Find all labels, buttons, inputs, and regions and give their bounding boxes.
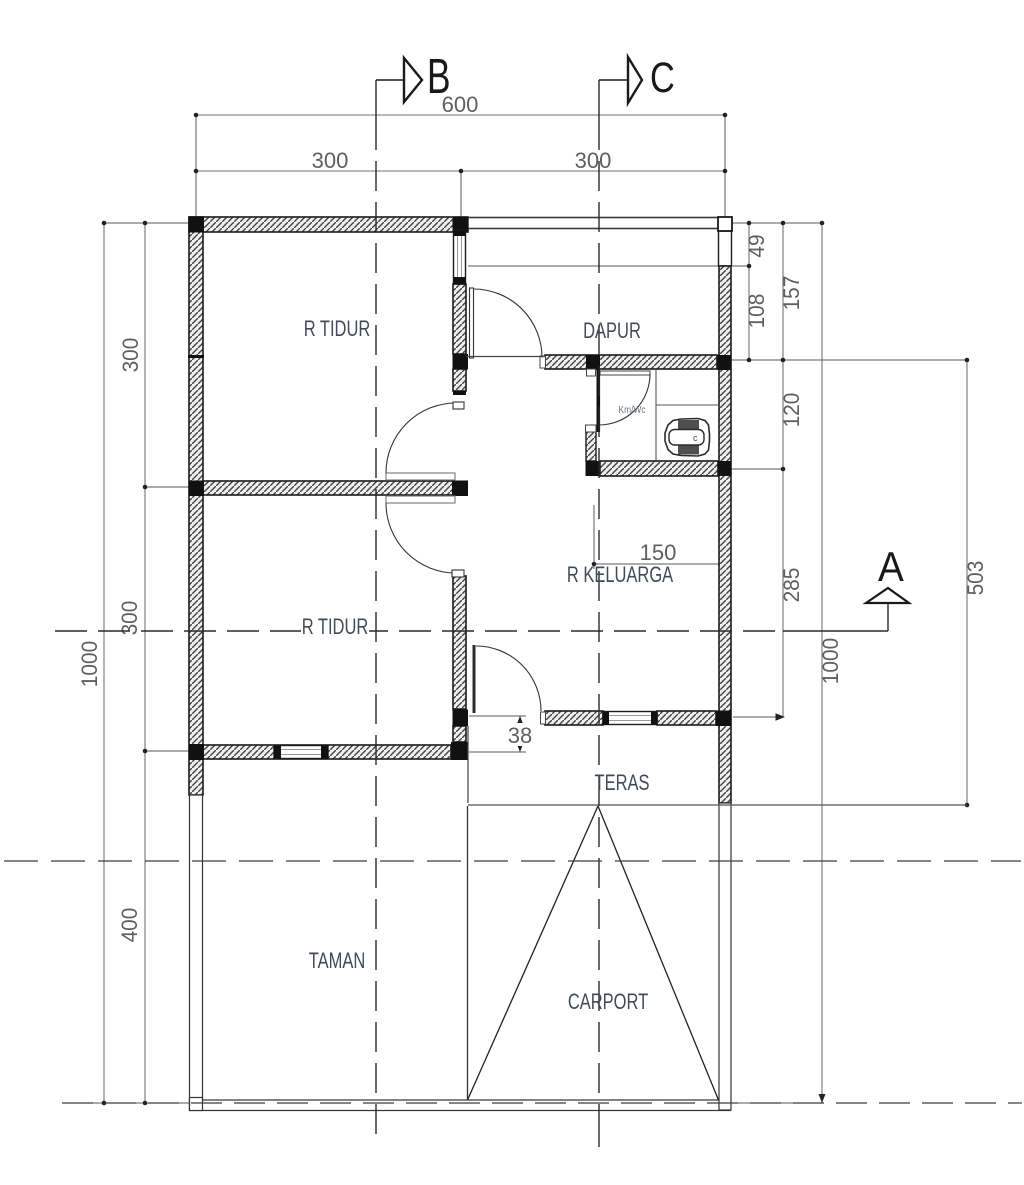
column Km/Wc SE <box>718 461 732 476</box>
column left-middle <box>189 481 205 497</box>
arrow on 285 extension <box>776 713 786 721</box>
section line C (vertical dashed at x=599) <box>598 80 600 1147</box>
svg-text:503: 503 <box>964 561 989 596</box>
svg-text:108: 108 <box>745 294 770 329</box>
column Km/Wc NW <box>586 355 600 370</box>
Km/Wc door arc <box>599 374 650 425</box>
carport diagonal right <box>598 806 719 1100</box>
window on hall south wall <box>603 712 657 725</box>
DAPUR west door arc <box>474 289 543 358</box>
column top-left <box>189 217 205 233</box>
interior wall segment (x453 y369-391) <box>453 369 466 391</box>
right wall upper stub (white) <box>719 231 732 266</box>
window on interior wall (x453 y230-284) <box>454 230 466 284</box>
double door lower tip <box>452 570 464 577</box>
toilet (Km/Wc) <box>665 419 710 457</box>
column bedroom2 SE <box>451 742 468 760</box>
Km/Wc west partition (hatched) <box>586 431 596 461</box>
door frame cap at DAPUR south wall <box>540 356 546 368</box>
dim ticks top <box>194 113 728 174</box>
svg-text:R TIDUR: R TIDUR <box>302 615 369 640</box>
TERAS bottom edge <box>468 804 967 806</box>
DAPUR south wall (hatched) <box>545 355 717 369</box>
right dimension lines <box>749 223 967 1103</box>
left dim ticks <box>102 221 148 1106</box>
interior wall segment (x453 y284-354) <box>453 284 466 354</box>
section marker C <box>599 54 675 103</box>
front boundary dashed line (y=1103) <box>62 1102 1022 1104</box>
fence corner left <box>190 1098 203 1111</box>
dimension 150 (R KELUARGA) <box>594 505 723 569</box>
dimension line 600 (top) <box>196 115 725 171</box>
bedroom2 door leaf <box>473 645 476 713</box>
joint tick on left wall <box>188 355 204 358</box>
carport left edge <box>467 806 469 1100</box>
svg-text:A: A <box>878 542 904 590</box>
right dim ticks <box>747 221 970 808</box>
svg-text:300: 300 <box>312 148 349 173</box>
svg-text:c: c <box>693 433 698 443</box>
double door upper arc <box>386 403 456 473</box>
dimension 38 (door offset) <box>469 716 526 752</box>
interior wall segment (x453 y726-742) <box>453 726 466 742</box>
left wall (hatched, west side) <box>189 217 203 795</box>
column at interior wall / DAPUR wall <box>453 354 469 370</box>
svg-text:1000: 1000 <box>78 641 103 688</box>
svg-text:1000: 1000 <box>819 638 844 685</box>
DAPUR west door leaf <box>470 288 474 358</box>
svg-text:400: 400 <box>118 908 143 943</box>
middle wall (between bedrooms) <box>203 481 453 495</box>
column top-right (open square) <box>718 217 732 231</box>
carport diagonal left <box>468 806 599 1100</box>
TERAS left boundary <box>467 726 469 803</box>
column Km/Wc SW <box>586 461 601 476</box>
svg-text:R TIDUR: R TIDUR <box>304 317 371 342</box>
hall south wall right segment <box>657 711 716 725</box>
arrow at bottom of 1000 right dim <box>819 1094 826 1103</box>
svg-text:38: 38 <box>508 723 532 748</box>
svg-text:150: 150 <box>640 540 677 565</box>
double door upper tip <box>453 402 464 409</box>
double door lower arc <box>386 503 456 573</box>
wall end cap <box>453 391 466 395</box>
section line A (horizontal dashed at y=631) <box>55 603 888 631</box>
right extension lines <box>468 223 967 1103</box>
DAPUR hall boundary line <box>466 356 545 358</box>
double door frames on middle wall <box>386 473 455 480</box>
label backgrounds <box>301 316 533 746</box>
bedroom2 south wall (hatched) <box>203 745 451 759</box>
svg-text:TERAS: TERAS <box>595 771 650 796</box>
window on bedroom2 south wall <box>274 746 328 759</box>
interior wall segment (x453 y576-709) <box>453 576 466 709</box>
extension lines top <box>196 115 725 225</box>
svg-text:49: 49 <box>745 234 770 257</box>
Km/Wc bottom wall (hatched) <box>600 461 718 476</box>
svg-text:157: 157 <box>780 276 805 311</box>
Km/Wc door leaf (closed, horizontal) <box>600 371 650 375</box>
property dashed line (horizontal y=861) <box>4 860 1021 862</box>
svg-text:DAPUR: DAPUR <box>583 319 641 344</box>
column at right wall / DAPUR wall <box>718 355 732 370</box>
column hall wall west <box>453 710 469 727</box>
top wall (hatched, north of R TIDUR 1) <box>189 217 468 232</box>
bedroom2 door arc <box>476 646 541 711</box>
svg-text:CARPORT: CARPORT <box>568 990 648 1015</box>
svg-text:300: 300 <box>118 601 143 636</box>
column mid (double door wall) <box>452 481 468 497</box>
column bedroom2 SW <box>189 744 205 760</box>
left fence (double line) <box>190 795 203 1110</box>
svg-text:R KELUARGA: R KELUARGA <box>567 563 673 588</box>
svg-text:120: 120 <box>780 393 805 428</box>
Km/Wc door open leaf (thick) <box>597 370 601 432</box>
svg-text:300: 300 <box>119 338 144 373</box>
left extension lines <box>85 223 189 1103</box>
column hall wall east <box>716 711 732 727</box>
Km/Wc interior partition lines <box>655 370 657 461</box>
svg-text:300: 300 <box>575 148 612 173</box>
Km/Wc door frame small caps <box>587 369 596 376</box>
bottom fence (double line) <box>190 1100 731 1111</box>
hall south wall left segment <box>545 711 603 725</box>
top-right thin wall (north of DAPUR) <box>468 218 731 229</box>
door frame cap at hall wall <box>541 712 546 724</box>
right wall (hatched, east side) <box>719 266 731 803</box>
svg-text:285: 285 <box>780 568 805 603</box>
left dimension lines <box>104 223 145 1103</box>
svg-text:C: C <box>650 54 675 101</box>
section marker B <box>376 49 451 104</box>
right fence (double line) <box>719 803 731 1110</box>
section marker A <box>866 542 909 603</box>
column top-middle <box>453 217 469 233</box>
svg-text:TAMAN: TAMAN <box>309 949 366 974</box>
svg-text:B: B <box>427 49 451 104</box>
section line B (vertical dashed at x=376) <box>375 80 377 1136</box>
svg-text:Km/Wc: Km/Wc <box>618 404 645 416</box>
